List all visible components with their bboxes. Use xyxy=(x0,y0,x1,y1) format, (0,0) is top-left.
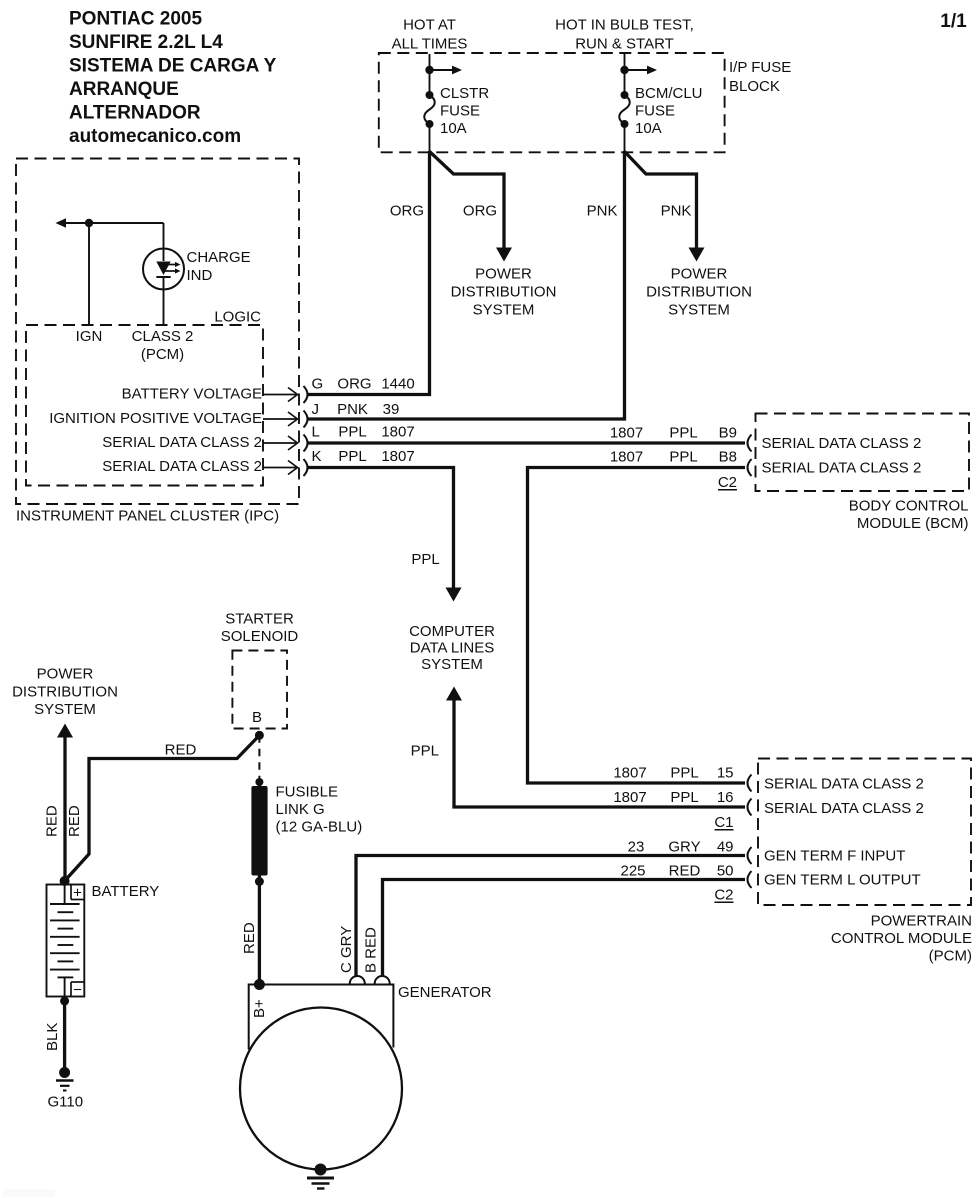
wire IGN drop xyxy=(88,223,90,325)
svg-text:DISTRIBUTION: DISTRIBUTION xyxy=(451,283,557,300)
arrow up to computer data lines xyxy=(446,687,462,701)
svg-text:BCM/CLU: BCM/CLU xyxy=(635,85,703,102)
svg-text:PPL: PPL xyxy=(670,789,698,806)
svg-text:CONTROL MODULE: CONTROL MODULE xyxy=(831,930,972,947)
svg-text:SERIAL DATA CLASS 2: SERIAL DATA CLASS 2 xyxy=(764,800,924,817)
svg-text:B: B xyxy=(252,709,262,726)
svg-text:PNK: PNK xyxy=(587,203,618,220)
svg-text:B RED: B RED xyxy=(363,927,380,973)
arrow right at fuse1 junction xyxy=(430,69,453,71)
svg-text:ALL TIMES: ALL TIMES xyxy=(392,36,468,53)
svg-text:IGNITION POSITIVE VOLTAGE: IGNITION POSITIVE VOLTAGE xyxy=(49,410,262,427)
fuse BCM/CLU FUSE 10A xyxy=(619,85,702,137)
powertrain control module box xyxy=(758,759,971,906)
svg-text:CLSTR: CLSTR xyxy=(440,85,489,102)
svg-text:(PCM): (PCM) xyxy=(141,346,184,363)
wire BCM B8 to PCM 15 xyxy=(528,468,746,784)
svg-text:POWERTRAIN: POWERTRAIN xyxy=(871,913,972,930)
svg-text:PPL: PPL xyxy=(338,448,366,465)
junction IGN rail xyxy=(85,219,93,227)
pin L label and wire codes xyxy=(312,424,415,441)
svg-text:K: K xyxy=(312,448,322,465)
junction fusible link top xyxy=(255,778,263,786)
svg-text:IGN: IGN xyxy=(76,328,103,345)
svg-text:B+: B+ xyxy=(251,999,268,1018)
svg-text:(12 GA-BLU): (12 GA-BLU) xyxy=(276,819,363,836)
connector arc PCM 50 xyxy=(748,871,752,888)
label CLASS 2 (PCM) xyxy=(132,328,194,363)
wire battery to starter solenoid RED xyxy=(65,735,260,881)
label BODY CONTROL MODULE (BCM) xyxy=(849,498,969,533)
battery symbol xyxy=(47,885,85,999)
label 1807 PPL 15 xyxy=(613,765,733,782)
svg-text:1807: 1807 xyxy=(381,424,414,441)
svg-text:RED: RED xyxy=(241,922,258,954)
wire fuse1 bottom xyxy=(429,124,431,152)
svg-text:C2: C2 xyxy=(718,474,737,491)
node POWER DISTRIBUTION SYSTEM (battery) xyxy=(12,666,118,718)
svg-text:FUSIBLE: FUSIBLE xyxy=(276,784,339,801)
logic box xyxy=(26,325,263,486)
fuse CLSTR FUSE 10A xyxy=(424,85,489,137)
svg-text:PPL: PPL xyxy=(411,551,439,568)
svg-text:CHARGE: CHARGE xyxy=(187,249,251,266)
junction battery positive xyxy=(60,876,70,886)
label 1807 PPL B9 xyxy=(610,425,737,442)
svg-text:SISTEMA DE CARGA Y: SISTEMA DE CARGA Y xyxy=(69,56,277,77)
svg-text:C1: C1 xyxy=(714,814,733,831)
svg-text:ORG: ORG xyxy=(463,203,497,220)
svg-text:ALTERNADOR: ALTERNADOR xyxy=(69,103,201,124)
wire ORG main vertical to pin G row xyxy=(307,151,430,395)
svg-text:C GRY: C GRY xyxy=(338,926,355,973)
svg-text:BATTERY VOLTAGE: BATTERY VOLTAGE xyxy=(122,386,262,403)
svg-text:SUNFIRE 2.2L L4: SUNFIRE 2.2L L4 xyxy=(69,32,223,53)
svg-text:POWER: POWER xyxy=(671,266,728,283)
svg-text:SOLENOID: SOLENOID xyxy=(221,628,299,645)
connector arc PCM 49 xyxy=(748,847,752,864)
label POWERTRAIN CONTROL MODULE (PCM) xyxy=(831,913,972,965)
wire fuse2 feed xyxy=(624,54,626,95)
svg-text:I/P FUSE: I/P FUSE xyxy=(729,59,791,76)
svg-text:IND: IND xyxy=(187,267,213,284)
svg-text:(PCM): (PCM) xyxy=(929,948,972,965)
node POWER DISTRIBUTION SYSTEM (ORG) xyxy=(451,266,557,319)
svg-text:FUSE: FUSE xyxy=(635,103,675,120)
svg-text:PONTIAC 2005: PONTIAC 2005 xyxy=(69,9,202,30)
pin J label and wire codes xyxy=(312,401,400,418)
svg-text:J: J xyxy=(312,401,320,418)
svg-text:POWER: POWER xyxy=(475,266,532,283)
wire CLASS 2 drop upper xyxy=(163,223,165,261)
junction battery negative xyxy=(60,997,69,1006)
svg-text:SERIAL DATA CLASS 2: SERIAL DATA CLASS 2 xyxy=(762,435,922,452)
label 23 GRY 49 xyxy=(628,839,734,856)
svg-text:SYSTEM: SYSTEM xyxy=(421,656,483,673)
LED cathode bar xyxy=(156,276,170,278)
label CHARGE IND xyxy=(187,249,251,284)
junction fuse1 top xyxy=(425,66,433,74)
svg-text:RUN & START: RUN & START xyxy=(575,36,674,53)
starter solenoid box xyxy=(232,651,287,729)
wire RED fusible link to generator xyxy=(258,782,261,985)
svg-text:MODULE (BCM): MODULE (BCM) xyxy=(857,515,969,532)
svg-text:L: L xyxy=(312,424,320,441)
wire GEN TERM L (RED) xyxy=(383,880,746,977)
arrow down PNK branch xyxy=(689,248,705,262)
svg-text:automecanico.com: automecanico.com xyxy=(69,126,241,147)
wire IPC top rail with left arrow xyxy=(64,222,164,224)
svg-text:ORG: ORG xyxy=(390,203,424,220)
svg-text:SYSTEM: SYSTEM xyxy=(668,301,730,318)
svg-text:FUSE: FUSE xyxy=(440,103,480,120)
svg-text:DATA LINES: DATA LINES xyxy=(410,640,494,657)
svg-text:10A: 10A xyxy=(440,120,467,137)
svg-text:SERIAL DATA CLASS 2: SERIAL DATA CLASS 2 xyxy=(762,460,922,477)
svg-text:BLOCK: BLOCK xyxy=(729,78,780,95)
svg-text:PPL: PPL xyxy=(670,765,698,782)
svg-text:STARTER: STARTER xyxy=(225,611,294,628)
svg-text:PPL: PPL xyxy=(669,449,697,466)
I/P fuse block box xyxy=(379,53,725,152)
svg-text:SERIAL DATA CLASS 2: SERIAL DATA CLASS 2 xyxy=(102,458,262,475)
watermark blob xyxy=(3,1189,55,1197)
svg-text:G110: G110 xyxy=(48,1094,84,1111)
svg-text:1807: 1807 xyxy=(613,789,646,806)
connector bump generator C xyxy=(350,976,365,983)
svg-text:PPL: PPL xyxy=(338,424,366,441)
svg-text:ARRANQUE: ARRANQUE xyxy=(69,79,179,100)
node HOT AT ALL TIMES xyxy=(392,17,468,53)
svg-text:RED: RED xyxy=(165,742,197,759)
connector C1 label (PCM) xyxy=(714,814,733,831)
svg-text:1807: 1807 xyxy=(613,765,646,782)
pin G connector stub xyxy=(263,386,308,403)
svg-text:LINK G: LINK G xyxy=(276,801,325,818)
svg-text:GENERATOR: GENERATOR xyxy=(398,984,492,1001)
svg-text:B8: B8 xyxy=(719,449,737,466)
arrow up power distribution (battery) xyxy=(57,724,73,738)
svg-text:+: + xyxy=(73,885,82,902)
svg-text:DISTRIBUTION: DISTRIBUTION xyxy=(646,283,752,300)
connector arc PCM 15 xyxy=(748,775,752,792)
svg-text:SERIAL DATA CLASS 2: SERIAL DATA CLASS 2 xyxy=(102,434,262,451)
connector C2 label (PCM) xyxy=(714,887,733,904)
wire dashed solenoid to fusible link xyxy=(258,735,260,780)
svg-text:SYSTEM: SYSTEM xyxy=(34,701,96,718)
wire battery positive riser xyxy=(63,737,66,881)
node POWER DISTRIBUTION SYSTEM (PNK) xyxy=(646,266,752,319)
arrow down PPL (K) xyxy=(446,588,462,602)
pin G label and wire codes xyxy=(312,376,415,393)
wire GEN TERM F (GRY) xyxy=(356,856,745,977)
wire PNK branch to power distribution xyxy=(625,152,697,249)
label FUSIBLE LINK G (12 GA-BLU) xyxy=(276,784,363,836)
ground generator xyxy=(307,1164,334,1189)
pin L connector stub xyxy=(263,435,308,452)
svg-text:10A: 10A xyxy=(635,120,662,137)
svg-text:PPL: PPL xyxy=(669,425,697,442)
wire K row down to computer data lines xyxy=(307,468,454,589)
svg-text:1807: 1807 xyxy=(381,448,414,465)
svg-text:PNK: PNK xyxy=(337,401,368,418)
svg-text:GEN TERM F INPUT: GEN TERM F INPUT xyxy=(764,848,905,865)
wire PNK main vertical to pin J row xyxy=(307,151,625,419)
svg-text:LOGIC: LOGIC xyxy=(214,309,261,326)
node COMPUTER DATA LINES SYSTEM xyxy=(409,623,495,673)
arrow down ORG branch xyxy=(496,248,512,262)
label 225 RED 50 xyxy=(620,863,733,880)
svg-text:B9: B9 xyxy=(719,425,737,442)
LED triangle xyxy=(156,262,170,276)
fusible link G element xyxy=(251,786,267,876)
svg-text:COMPUTER: COMPUTER xyxy=(409,623,495,640)
title block xyxy=(69,9,277,148)
body control module box xyxy=(756,414,970,492)
svg-text:225: 225 xyxy=(620,863,645,880)
svg-text:PPL: PPL xyxy=(411,743,439,760)
wire BLK battery to ground xyxy=(63,997,66,1069)
LED emission arrow 1 xyxy=(164,264,175,266)
svg-text:SERIAL DATA CLASS 2: SERIAL DATA CLASS 2 xyxy=(764,776,924,793)
svg-text:23: 23 xyxy=(628,839,645,856)
svg-text:DISTRIBUTION: DISTRIBUTION xyxy=(12,683,118,700)
svg-text:G: G xyxy=(312,376,324,393)
connector arc BCM B9 xyxy=(748,435,752,452)
svg-text:1/1: 1/1 xyxy=(940,11,967,32)
svg-text:BLK: BLK xyxy=(44,1023,61,1051)
svg-text:HOT IN BULB TEST,: HOT IN BULB TEST, xyxy=(555,17,694,34)
arrow right at fuse2 junction xyxy=(625,69,648,71)
connector C2 label (BCM) xyxy=(718,474,737,491)
svg-text:−: − xyxy=(73,982,82,999)
pin K connector stub xyxy=(263,459,308,476)
svg-text:1440: 1440 xyxy=(381,376,414,393)
label 1807 PPL B8 xyxy=(610,449,737,466)
svg-text:INSTRUMENT PANEL CLUSTER (IPC): INSTRUMENT PANEL CLUSTER (IPC) xyxy=(16,508,279,525)
svg-text:C2: C2 xyxy=(714,887,733,904)
LED emission arrow 2 xyxy=(164,270,175,272)
wire fuse1 feed xyxy=(429,54,431,95)
wire CLASS 2 drop lower xyxy=(163,277,165,325)
svg-text:39: 39 xyxy=(383,401,400,418)
svg-text:ORG: ORG xyxy=(337,376,371,393)
generator housing box xyxy=(249,985,394,1050)
svg-text:15: 15 xyxy=(717,765,734,782)
svg-text:1807: 1807 xyxy=(610,449,643,466)
wire fuse2 bottom xyxy=(624,124,626,152)
label STARTER SOLENOID xyxy=(221,611,299,646)
junction fuse2 top xyxy=(620,66,628,74)
connector arc BCM B8 xyxy=(748,459,752,476)
svg-text:POWER: POWER xyxy=(37,666,94,683)
pin K label and wire codes xyxy=(312,448,415,465)
generator circle xyxy=(240,1008,402,1170)
svg-text:50: 50 xyxy=(717,863,734,880)
wire ORG branch to power distribution xyxy=(430,152,505,249)
svg-text:16: 16 xyxy=(717,789,734,806)
instrument panel cluster box xyxy=(16,159,299,505)
wire L row to BCM B9 xyxy=(307,441,745,444)
svg-text:CLASS 2: CLASS 2 xyxy=(132,328,194,345)
label 1807 PPL 16 xyxy=(613,789,733,806)
svg-text:RED: RED xyxy=(669,863,701,880)
svg-text:HOT AT: HOT AT xyxy=(403,17,456,34)
node B terminal xyxy=(255,731,264,740)
ground G110 xyxy=(56,1067,74,1091)
junction generator B+ xyxy=(254,979,265,990)
svg-text:BATTERY: BATTERY xyxy=(92,883,160,900)
svg-text:RED: RED xyxy=(66,805,83,837)
svg-text:RED: RED xyxy=(44,805,61,837)
junction fusible link bottom xyxy=(255,877,264,886)
svg-text:49: 49 xyxy=(717,839,734,856)
svg-text:SYSTEM: SYSTEM xyxy=(473,301,535,318)
wire PCM 16 to computer data lines xyxy=(454,700,745,807)
svg-text:GRY: GRY xyxy=(668,839,700,856)
I/P FUSE BLOCK label xyxy=(729,59,791,95)
svg-text:BODY CONTROL: BODY CONTROL xyxy=(849,498,969,515)
charge indicator lamp circle xyxy=(143,249,184,290)
svg-text:GEN TERM L OUTPUT: GEN TERM L OUTPUT xyxy=(764,872,921,889)
pin J connector stub xyxy=(263,411,308,428)
svg-text:1807: 1807 xyxy=(610,425,643,442)
svg-text:PNK: PNK xyxy=(661,203,692,220)
node HOT IN BULB TEST, RUN & START xyxy=(555,17,694,53)
connector arc PCM 16 xyxy=(748,799,752,816)
connector bump generator B xyxy=(375,976,390,983)
